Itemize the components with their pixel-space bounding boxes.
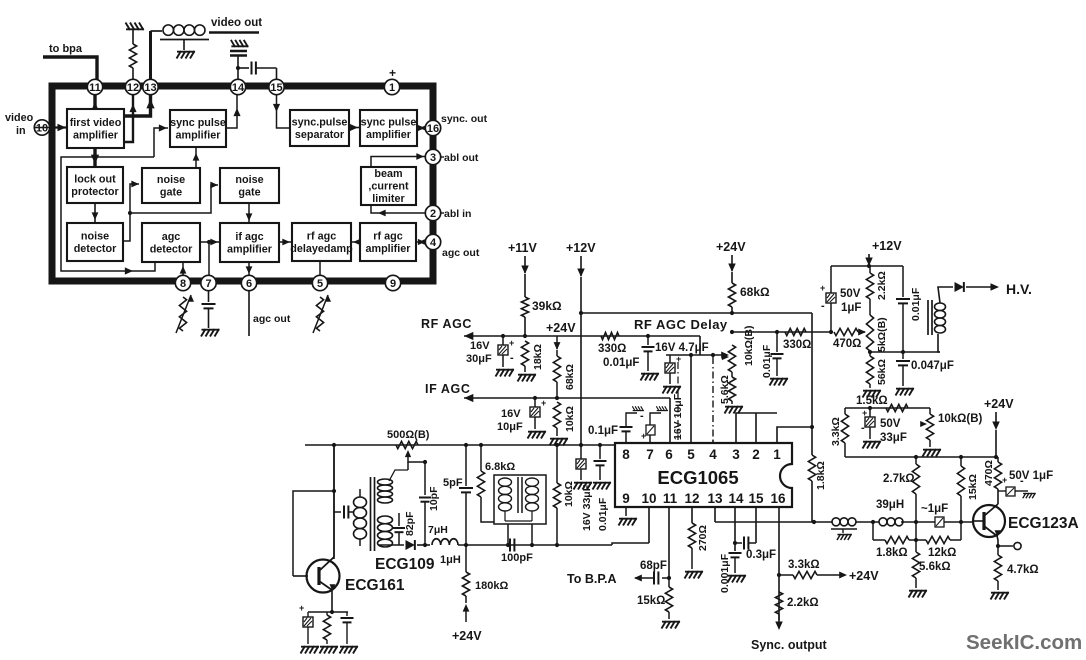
svg-text:2: 2 (430, 208, 436, 220)
svg-text:3.3kΩ: 3.3kΩ (788, 559, 820, 571)
svg-text:+24V: +24V (984, 397, 1014, 411)
svg-text:gate: gate (160, 186, 182, 198)
svg-text:2.7kΩ: 2.7kΩ (883, 473, 915, 485)
svg-text:in: in (16, 125, 26, 137)
svg-text:15kΩ: 15kΩ (637, 595, 665, 607)
svg-text:68kΩ: 68kΩ (740, 285, 770, 299)
svg-text:0.047μF: 0.047μF (911, 360, 954, 372)
svg-text:delayedamp: delayedamp (290, 243, 353, 255)
svg-text:1.8kΩ: 1.8kΩ (876, 547, 908, 559)
svg-text:100pF: 100pF (501, 552, 533, 564)
svg-text:7μH: 7μH (428, 524, 448, 536)
svg-text:10kΩ(B): 10kΩ(B) (938, 413, 983, 425)
svg-text:H.V.: H.V. (1006, 281, 1032, 297)
svg-text:18kΩ: 18kΩ (532, 344, 544, 370)
svg-text:1: 1 (773, 447, 781, 462)
svg-text:13: 13 (707, 491, 723, 506)
svg-text:Sync. output: Sync. output (751, 638, 828, 652)
svg-text:330Ω: 330Ω (783, 339, 811, 351)
svg-text:6: 6 (665, 447, 673, 462)
svg-text:agc out: agc out (253, 313, 291, 325)
svg-text:SeekIC.com: SeekIC.com (966, 631, 1082, 654)
svg-text:+12V: +12V (566, 241, 596, 255)
svg-text:15: 15 (748, 491, 764, 506)
svg-text:video: video (5, 112, 34, 124)
svg-text:ECG109: ECG109 (375, 556, 435, 573)
svg-text:+24V: +24V (546, 321, 576, 335)
svg-text:470Ω: 470Ω (833, 338, 861, 350)
svg-text:+: + (389, 66, 396, 80)
svg-text:agc out: agc out (442, 247, 480, 259)
svg-text:RF AGC Delay: RF AGC Delay (634, 317, 728, 332)
svg-text:1μF: 1μF (841, 302, 861, 314)
svg-text:noise: noise (81, 230, 109, 242)
svg-text:RF AGC: RF AGC (421, 317, 472, 331)
svg-text:7: 7 (646, 447, 654, 462)
svg-text:sync.pulse: sync.pulse (292, 116, 348, 128)
svg-text:noise: noise (157, 174, 185, 186)
svg-text:2.2kΩ: 2.2kΩ (787, 597, 819, 609)
svg-text:+: + (541, 398, 546, 408)
svg-text:5: 5 (687, 447, 695, 462)
svg-text:5kΩ(B): 5kΩ(B) (876, 317, 888, 352)
svg-text:+: + (509, 338, 514, 348)
svg-text:12kΩ: 12kΩ (928, 547, 956, 559)
svg-text:+: + (1002, 475, 1007, 485)
svg-text:sync. out: sync. out (441, 113, 488, 125)
svg-text:+12V: +12V (872, 239, 902, 253)
svg-text:33μF: 33μF (880, 432, 907, 444)
svg-text:10μF: 10μF (497, 421, 523, 433)
svg-text:82pF: 82pF (404, 511, 416, 536)
svg-text:1: 1 (389, 82, 395, 94)
svg-text:lock out: lock out (74, 173, 116, 185)
svg-text:,current: ,current (368, 181, 409, 193)
svg-text:beam: beam (374, 168, 402, 180)
svg-text:ECG161: ECG161 (345, 577, 405, 594)
svg-text:16: 16 (427, 123, 439, 135)
svg-text:10kΩ: 10kΩ (564, 406, 576, 432)
svg-text:-: - (821, 300, 825, 312)
svg-text:15kΩ: 15kΩ (967, 474, 979, 500)
svg-text:-: - (510, 352, 514, 364)
svg-text:50V: 50V (840, 288, 861, 300)
svg-text:15: 15 (270, 82, 282, 94)
svg-text:+: + (820, 283, 825, 293)
svg-text:-: - (640, 410, 644, 422)
svg-text:1.8kΩ: 1.8kΩ (815, 461, 827, 490)
svg-text:+: + (862, 408, 867, 418)
svg-text:0.3μF: 0.3μF (746, 549, 776, 561)
svg-text:5.6kΩ: 5.6kΩ (919, 561, 951, 573)
svg-text:16V 10μF: 16V 10μF (672, 393, 684, 440)
svg-text:+24V: +24V (716, 240, 746, 254)
svg-text:2.2kΩ: 2.2kΩ (876, 271, 888, 300)
svg-text:0.1μF: 0.1μF (588, 425, 618, 437)
svg-text:~1μF: ~1μF (921, 503, 948, 515)
svg-text:detector: detector (74, 243, 117, 255)
svg-text:9: 9 (622, 491, 630, 506)
svg-text:to bpa: to bpa (49, 43, 83, 55)
svg-text:3: 3 (430, 152, 436, 164)
svg-text:4: 4 (709, 447, 717, 462)
svg-text:IF AGC: IF AGC (425, 382, 471, 396)
svg-text:noise: noise (235, 174, 263, 186)
svg-text:+: + (676, 354, 681, 364)
svg-text:11: 11 (663, 491, 678, 506)
svg-text:1μH: 1μH (440, 554, 461, 566)
svg-text:amplifier: amplifier (365, 243, 411, 255)
svg-text:16: 16 (770, 491, 786, 506)
svg-text:39kΩ: 39kΩ (532, 299, 562, 313)
svg-text:68pF: 68pF (640, 560, 667, 572)
svg-text:0.01μF: 0.01μF (603, 357, 639, 369)
svg-text:0.001μF: 0.001μF (719, 553, 731, 593)
svg-text:16V: 16V (501, 408, 521, 420)
svg-text:rf agc: rf agc (307, 230, 336, 242)
svg-text:separator: separator (295, 129, 345, 141)
svg-text:11: 11 (89, 82, 101, 94)
svg-text:amplifier: amplifier (227, 243, 273, 255)
svg-text:3: 3 (732, 447, 740, 462)
svg-text:39μH: 39μH (876, 499, 904, 511)
svg-text:+11V: +11V (508, 241, 538, 255)
svg-text:6.8kΩ: 6.8kΩ (485, 461, 515, 473)
svg-text:10: 10 (641, 491, 656, 506)
svg-text:2: 2 (752, 447, 760, 462)
svg-text:sync pulse: sync pulse (361, 116, 417, 128)
svg-text:9: 9 (390, 278, 396, 290)
svg-text:16V 33μF: 16V 33μF (581, 484, 593, 531)
svg-text:amplifier: amplifier (73, 129, 119, 141)
svg-text:8: 8 (180, 278, 186, 290)
svg-text:30μF: 30μF (466, 353, 492, 365)
svg-text:180kΩ: 180kΩ (475, 580, 508, 592)
svg-text:limiter: limiter (372, 193, 405, 205)
svg-text:5: 5 (317, 278, 323, 290)
svg-text:rf agc: rf agc (373, 230, 402, 242)
svg-text:500Ω(B): 500Ω(B) (387, 429, 430, 441)
svg-text:12: 12 (127, 82, 139, 94)
svg-text:8: 8 (622, 447, 630, 462)
svg-text:5.6kΩ: 5.6kΩ (719, 375, 731, 404)
svg-text:4.7kΩ: 4.7kΩ (1007, 564, 1039, 576)
svg-text:0.01μF: 0.01μF (910, 287, 922, 321)
svg-text:270Ω: 270Ω (697, 525, 709, 551)
svg-text:14: 14 (232, 82, 245, 94)
svg-text:1.5kΩ: 1.5kΩ (856, 395, 888, 407)
svg-text:gate: gate (238, 186, 260, 198)
svg-text:video out: video out (211, 17, 262, 29)
svg-text:agc: agc (162, 231, 181, 243)
svg-text:first video: first video (70, 117, 122, 129)
svg-text:amplifier: amplifier (366, 129, 412, 141)
svg-text:4: 4 (430, 237, 437, 249)
svg-text:6: 6 (246, 278, 252, 290)
svg-text:if agc: if agc (235, 231, 263, 243)
svg-text:16V: 16V (470, 340, 490, 352)
svg-text:7: 7 (205, 278, 211, 290)
svg-text:10pF: 10pF (428, 486, 440, 511)
svg-text:14: 14 (728, 491, 744, 506)
svg-text:+24V: +24V (452, 629, 482, 643)
svg-text:3.3kΩ: 3.3kΩ (830, 417, 842, 446)
svg-text:470Ω: 470Ω (983, 460, 995, 486)
svg-text:0.01μF: 0.01μF (761, 344, 773, 378)
svg-text:amplifier: amplifier (175, 129, 221, 141)
svg-text:5pF: 5pF (443, 477, 463, 489)
svg-text:ECG1065: ECG1065 (657, 467, 738, 488)
svg-text:+: + (299, 603, 304, 613)
svg-text:16V 4.7μF: 16V 4.7μF (655, 342, 709, 354)
svg-text:10kΩ: 10kΩ (563, 481, 575, 507)
svg-text:+: + (641, 431, 646, 441)
svg-text:-: - (861, 422, 865, 434)
svg-text:50V: 50V (880, 418, 901, 430)
svg-text:protector: protector (71, 186, 119, 198)
svg-text:sync pulse: sync pulse (170, 117, 226, 129)
svg-text:68kΩ: 68kΩ (564, 364, 576, 390)
svg-text:abl in: abl in (444, 208, 471, 220)
svg-text:13: 13 (144, 82, 156, 94)
svg-text:50V 1μF: 50V 1μF (1009, 470, 1053, 482)
svg-text:0.01μF: 0.01μF (597, 497, 609, 531)
svg-text:56kΩ: 56kΩ (876, 359, 888, 385)
svg-text:To B.P.A: To B.P.A (567, 572, 617, 586)
svg-text:+24V: +24V (849, 569, 879, 583)
svg-text:330Ω: 330Ω (598, 343, 626, 355)
svg-text:abl out: abl out (444, 152, 479, 164)
svg-text:12: 12 (684, 491, 699, 506)
svg-text:detector: detector (150, 243, 193, 255)
svg-text:ECG123A: ECG123A (1008, 515, 1079, 532)
